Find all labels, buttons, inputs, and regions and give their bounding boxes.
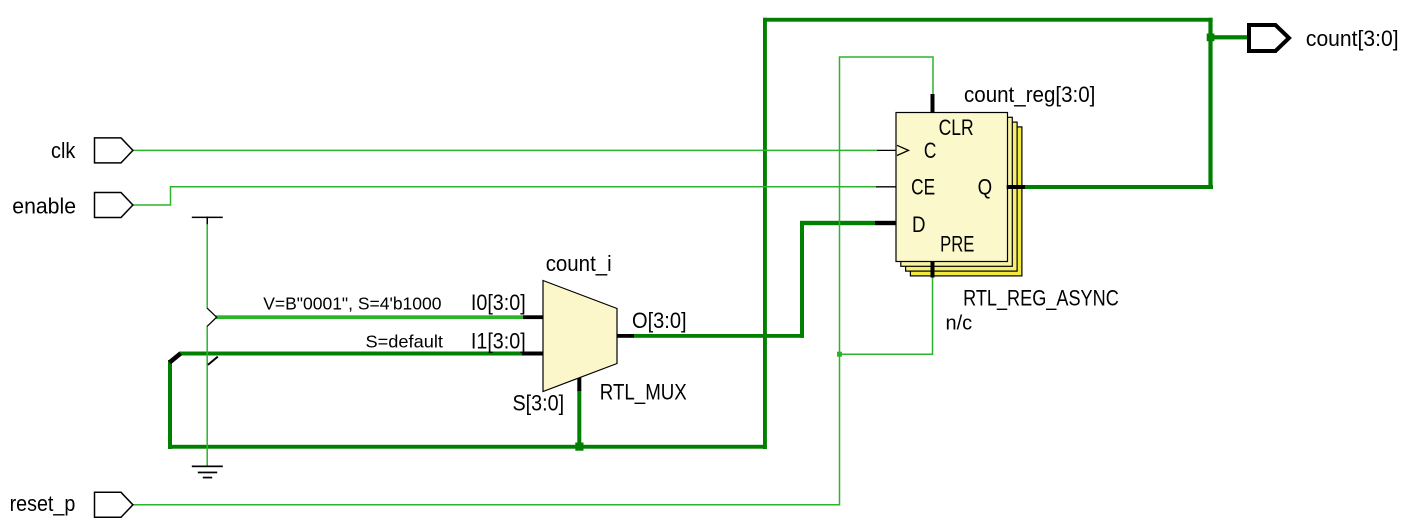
svg-text:RTL_MUX: RTL_MUX [600,380,687,405]
svg-text:S=default: S=default [366,332,444,352]
svg-text:enable: enable [12,194,76,219]
svg-text:CE: CE [911,175,935,200]
svg-text:RTL_REG_ASYNC: RTL_REG_ASYNC [963,286,1119,311]
svg-text:V=B"0001", S=4'b1000: V=B"0001", S=4'b1000 [263,293,442,313]
svg-text:PRE: PRE [940,232,974,257]
svg-text:S[3:0]: S[3:0] [513,391,565,416]
svg-text:CLR: CLR [939,115,974,140]
svg-text:Q: Q [978,175,993,200]
svg-text:count_i: count_i [546,251,612,276]
svg-text:reset_p: reset_p [10,491,76,516]
svg-text:D: D [912,212,926,237]
svg-text:clk: clk [51,138,76,163]
svg-text:O[3:0]: O[3:0] [632,308,687,333]
svg-text:count[3:0]: count[3:0] [1306,26,1399,51]
svg-text:C: C [924,138,937,163]
svg-text:n/c: n/c [946,313,973,335]
svg-text:count_reg[3:0]: count_reg[3:0] [964,82,1095,107]
svg-text:I0[3:0]: I0[3:0] [471,290,526,315]
svg-text:I1[3:0]: I1[3:0] [471,328,526,353]
